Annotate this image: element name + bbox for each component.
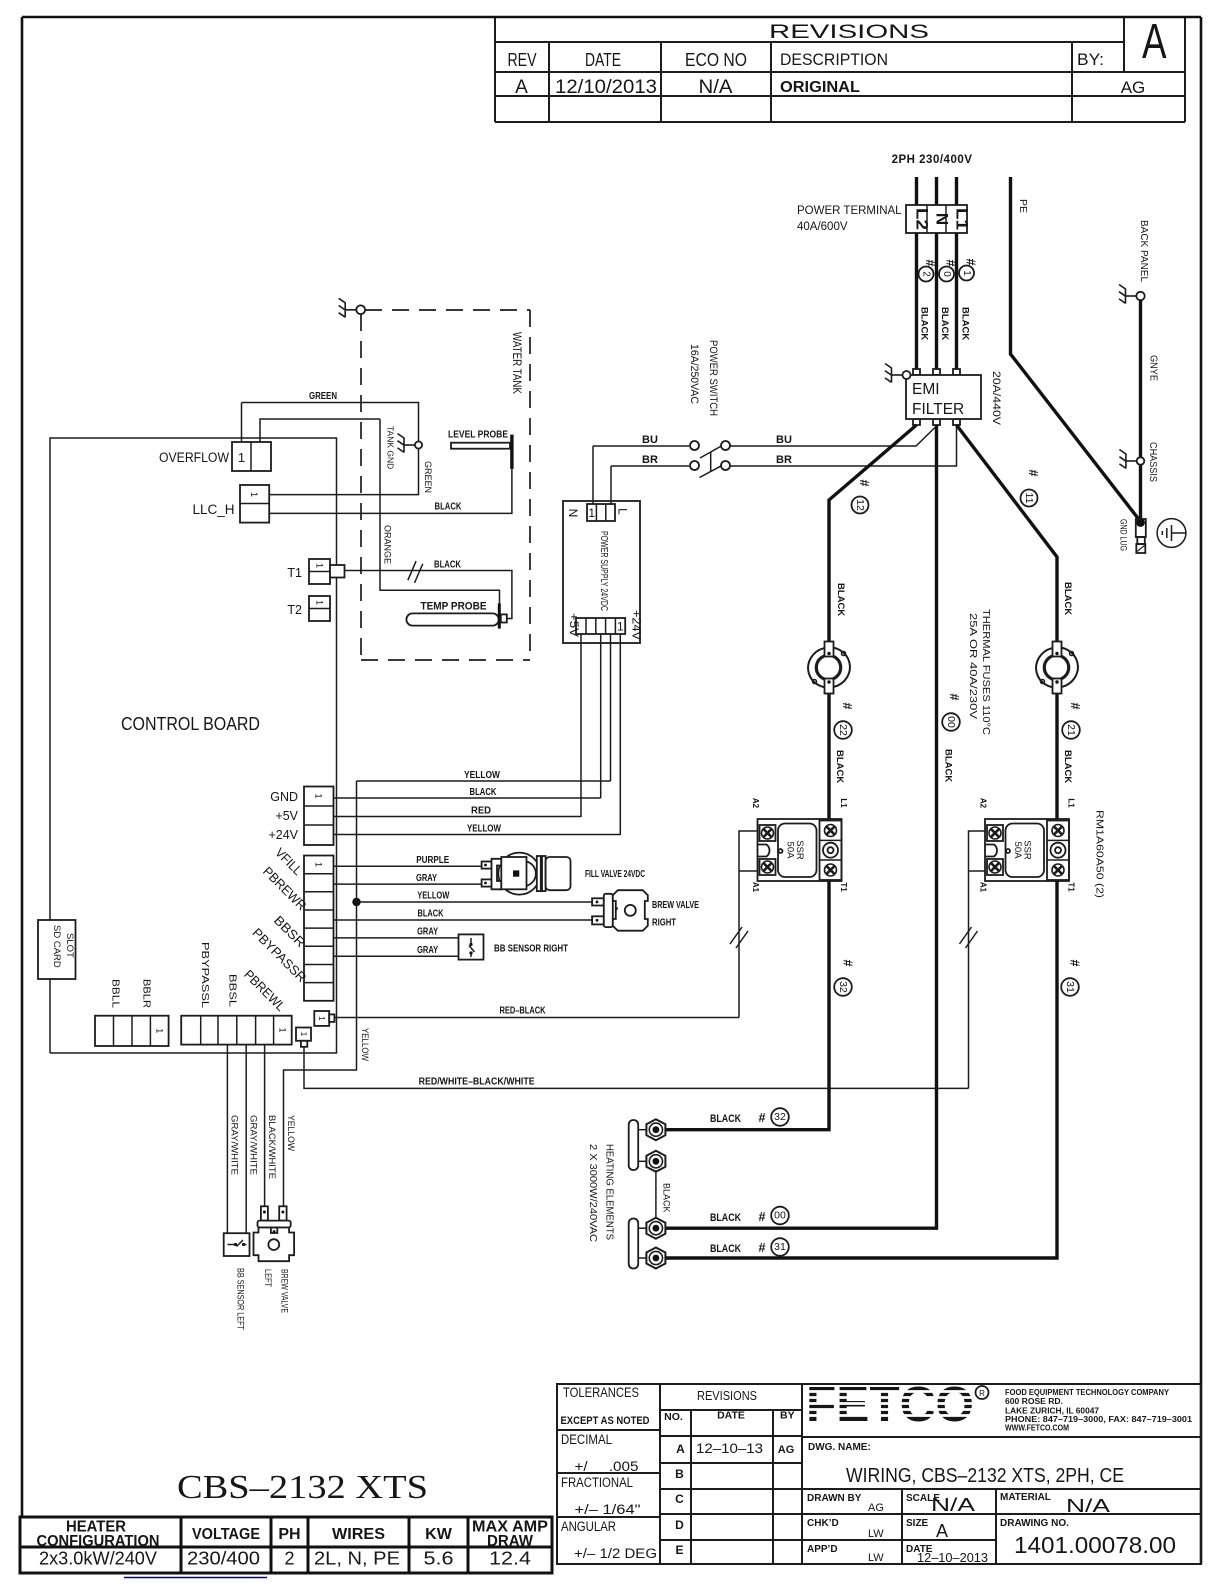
svg-text:16A/250VAC: 16A/250VAC bbox=[688, 344, 700, 404]
svg-text:FILTER: FILTER bbox=[912, 401, 964, 418]
svg-text:T2: T2 bbox=[287, 603, 302, 617]
svg-text:1: 1 bbox=[961, 270, 972, 276]
svg-text:32: 32 bbox=[837, 981, 849, 993]
svg-text:C: C bbox=[675, 1492, 684, 1506]
wire BLACK to level probe bbox=[269, 469, 512, 514]
svg-text:20A/440V: 20A/440V bbox=[990, 371, 1002, 426]
svg-text:GND: GND bbox=[270, 790, 298, 804]
svg-text:GREEN: GREEN bbox=[309, 391, 337, 402]
svg-text:BLACK: BLACK bbox=[435, 502, 463, 513]
title block bbox=[557, 1384, 1201, 1564]
svg-text:REVISIONS: REVISIONS bbox=[697, 1389, 757, 1403]
wire L2 black to EMI bbox=[915, 233, 918, 371]
svg-text:A2: A2 bbox=[751, 798, 760, 809]
svg-text:BY:: BY: bbox=[1077, 50, 1104, 69]
svg-text:HEATING ELEMENTS: HEATING ELEMENTS bbox=[604, 1144, 615, 1240]
svg-text:2PH 230/400V: 2PH 230/400V bbox=[892, 154, 973, 166]
brew valve right bbox=[592, 890, 648, 931]
svg-text:BU: BU bbox=[642, 434, 658, 446]
wire BLACK element link bbox=[655, 1170, 657, 1219]
wire RED +5V vertical bbox=[580, 634, 582, 817]
label #00 bbox=[942, 694, 961, 731]
svg-text:CHK’D: CHK’D bbox=[807, 1518, 839, 1529]
svg-text:L1: L1 bbox=[1067, 798, 1076, 808]
heater configuration table bbox=[20, 1517, 552, 1573]
wire BLACK #12 bbox=[829, 425, 917, 642]
svg-text:LEFT: LEFT bbox=[262, 1269, 273, 1287]
svg-text:CONTROL BOARD: CONTROL BOARD bbox=[121, 714, 260, 734]
svg-text:N/A: N/A bbox=[1066, 1496, 1110, 1516]
svg-text:32: 32 bbox=[774, 1111, 786, 1123]
wire number #1 bbox=[959, 259, 978, 281]
svg-text:YELLOW: YELLOW bbox=[286, 1115, 296, 1151]
svg-text:ANGULAR: ANGULAR bbox=[561, 1519, 616, 1534]
svg-text:WWW.FETCO.COM: WWW.FETCO.COM bbox=[1005, 1424, 1069, 1433]
svg-text:00: 00 bbox=[774, 1210, 786, 1222]
svg-text:GRAY/WHITE: GRAY/WHITE bbox=[248, 1115, 258, 1175]
svg-text:+24V: +24V bbox=[630, 610, 644, 640]
wire BLACK to temp probe bbox=[345, 571, 512, 619]
svg-text:EXCEPT AS NOTED: EXCEPT AS NOTED bbox=[561, 1415, 650, 1427]
svg-text:31: 31 bbox=[1064, 981, 1076, 993]
svg-text:1: 1 bbox=[299, 1032, 308, 1037]
svg-text:BLACK: BLACK bbox=[1062, 582, 1073, 615]
FETCO logo bbox=[806, 1378, 989, 1432]
wire RED/WHITE-BLACK/WHITE bbox=[304, 1047, 969, 1089]
svg-text:BLACK: BLACK bbox=[1062, 750, 1073, 783]
junction yellow bbox=[352, 898, 360, 906]
svg-text:+/– 1/2 DEG: +/– 1/2 DEG bbox=[574, 1546, 657, 1561]
wire GREEN bbox=[242, 403, 419, 442]
connector PBYPASSL/BBSL/PBREWL bbox=[181, 1016, 292, 1045]
wire SSR right control bbox=[969, 831, 986, 1088]
svg-text:GRAY: GRAY bbox=[417, 927, 438, 938]
svg-text:VOLTAGE: VOLTAGE bbox=[192, 1526, 260, 1543]
svg-text:RED–BLACK: RED–BLACK bbox=[500, 1006, 547, 1017]
wire GRAY/WHITE 1 bbox=[226, 1045, 228, 1234]
svg-text:BLACK: BLACK bbox=[710, 1113, 741, 1125]
svg-text:POWER SWITCH: POWER SWITCH bbox=[707, 340, 719, 416]
svg-text:DWG. NAME:: DWG. NAME: bbox=[808, 1442, 871, 1453]
svg-text:A2: A2 bbox=[979, 798, 988, 809]
wire number #2 bbox=[919, 260, 938, 282]
connector T2 bbox=[309, 596, 330, 621]
wire YELLOW horizontal bbox=[357, 780, 611, 782]
svg-text:BLACK: BLACK bbox=[418, 909, 445, 920]
svg-text:ECO NO: ECO NO bbox=[685, 50, 747, 70]
wire GRAY bbox=[334, 883, 482, 885]
connector RW-BW 1pin bbox=[296, 1028, 311, 1047]
svg-text:GREEN: GREEN bbox=[423, 461, 433, 493]
svg-text:PURPLE: PURPLE bbox=[416, 855, 449, 866]
BB sensor left bbox=[224, 1233, 250, 1256]
wire SSR left control bbox=[739, 831, 758, 1018]
heating element R1 bbox=[629, 1119, 666, 1172]
wire RED-BLACK bbox=[334, 1017, 739, 1019]
svg-text:RIGHT: RIGHT bbox=[652, 917, 676, 929]
svg-text:1: 1 bbox=[238, 450, 245, 465]
svg-text:2L, N, PE: 2L, N, PE bbox=[314, 1549, 400, 1569]
fill valve 24VDC bbox=[482, 853, 571, 895]
svg-text:L1: L1 bbox=[953, 208, 972, 230]
svg-text:BACK PANEL: BACK PANEL bbox=[1138, 220, 1149, 282]
label #21 bbox=[1062, 703, 1082, 739]
wire L2 drop to terminal bbox=[915, 177, 918, 206]
svg-text:TOLERANCES: TOLERANCES bbox=[563, 1384, 639, 1400]
svg-text:L1: L1 bbox=[839, 798, 848, 808]
svg-text:BLACK: BLACK bbox=[835, 583, 846, 616]
svg-text:2: 2 bbox=[921, 271, 932, 277]
svg-text:1: 1 bbox=[315, 600, 325, 605]
svg-text:THERMAL FUSES 110°C: THERMAL FUSES 110°C bbox=[980, 609, 992, 735]
svg-text:DRAWN BY: DRAWN BY bbox=[807, 1493, 862, 1504]
svg-text:25A OR 40A/230V: 25A OR 40A/230V bbox=[967, 613, 979, 719]
svg-text:#: # bbox=[1068, 960, 1082, 967]
svg-text:00: 00 bbox=[945, 716, 957, 728]
wire ORANGE bbox=[380, 419, 500, 603]
svg-text:L: L bbox=[616, 508, 630, 515]
wire GNYE bbox=[1139, 300, 1142, 519]
svg-text:BREW VALVE: BREW VALVE bbox=[279, 1269, 290, 1313]
svg-text:BR: BR bbox=[642, 454, 658, 466]
svg-text:LLC_H: LLC_H bbox=[192, 502, 234, 517]
svg-text:YELLOW: YELLOW bbox=[417, 891, 449, 902]
wire PURPLE bbox=[334, 865, 482, 867]
wire green overflow pin1 bbox=[241, 403, 243, 443]
svg-text:BU: BU bbox=[776, 434, 792, 446]
svg-text:1: 1 bbox=[314, 862, 324, 867]
svg-text:BLACK: BLACK bbox=[943, 749, 954, 782]
svg-text:AG: AG bbox=[1121, 78, 1146, 97]
SSR K2 (right) 50A bbox=[979, 798, 1076, 893]
svg-text:TANK GND: TANK GND bbox=[386, 426, 396, 469]
svg-text:LEVEL PROBE: LEVEL PROBE bbox=[448, 429, 508, 441]
FETCO address bbox=[1005, 1388, 1193, 1433]
svg-text:+24V: +24V bbox=[268, 828, 298, 842]
svg-text:1: 1 bbox=[278, 1027, 288, 1032]
connector T1 bbox=[309, 559, 345, 584]
svg-text:600 ROSE RD.: 600 ROSE RD. bbox=[1005, 1397, 1063, 1406]
svg-text:R: R bbox=[979, 1389, 985, 1398]
svg-text:CHASSIS: CHASSIS bbox=[1147, 442, 1158, 482]
svg-text:YELLOW: YELLOW bbox=[360, 1028, 370, 1061]
svg-text:5.6: 5.6 bbox=[424, 1549, 454, 1569]
svg-text:2x3.0kW/240V: 2x3.0kW/240V bbox=[39, 1549, 157, 1569]
control board outline bbox=[50, 438, 337, 1053]
svg-text:NO.: NO. bbox=[664, 1411, 683, 1423]
svg-text:#: # bbox=[1026, 470, 1040, 477]
wire YELLOW to brew valve right bbox=[357, 901, 593, 903]
svg-text:1401.00078.00: 1401.00078.00 bbox=[1014, 1532, 1176, 1558]
svg-text:12.4: 12.4 bbox=[489, 1549, 531, 1569]
power supply PS1 24VDC bbox=[563, 501, 644, 643]
svg-text:ORIGINAL: ORIGINAL bbox=[780, 79, 860, 96]
svg-text:BLACK: BLACK bbox=[470, 787, 498, 798]
svg-text:12–10–2013: 12–10–2013 bbox=[917, 1550, 988, 1565]
svg-text:BLACK: BLACK bbox=[834, 750, 845, 783]
svg-text:BBLL: BBLL bbox=[109, 979, 120, 1009]
svg-text:REV: REV bbox=[508, 50, 537, 70]
thermal fuse F1 bbox=[804, 642, 855, 694]
wire GRAY to bb sensor right 2 bbox=[334, 955, 459, 957]
svg-text:POWER SUPPLY 24VDC: POWER SUPPLY 24VDC bbox=[598, 531, 609, 611]
svg-text:B: B bbox=[675, 1467, 684, 1481]
wire BLACK #11 bbox=[957, 425, 1058, 642]
svg-text:A: A bbox=[515, 77, 528, 98]
svg-text:BLACK: BLACK bbox=[939, 307, 950, 340]
label #12 bbox=[852, 480, 872, 514]
svg-text:A1: A1 bbox=[979, 882, 988, 893]
svg-text:A: A bbox=[1142, 15, 1167, 69]
svg-text:BB SENSOR RIGHT: BB SENSOR RIGHT bbox=[494, 943, 568, 955]
svg-text:CONFIGURATION: CONFIGURATION bbox=[37, 1533, 160, 1550]
wire BLACK/WHITE bbox=[264, 1045, 266, 1207]
ground at back panel bbox=[1119, 285, 1145, 304]
wire BLACK GND vertical bbox=[600, 634, 602, 798]
svg-text:SLOT: SLOT bbox=[64, 933, 75, 958]
svg-text:APP’D: APP’D bbox=[807, 1544, 838, 1555]
BB sensor right bbox=[459, 934, 484, 959]
hyperlink underline artifact bbox=[124, 1577, 267, 1579]
crossover bbox=[404, 560, 426, 584]
svg-text:AG: AG bbox=[778, 1444, 795, 1456]
connector GND/+5V/+24V bbox=[304, 787, 334, 846]
svg-text:11: 11 bbox=[1023, 493, 1035, 504]
svg-text:#: # bbox=[947, 694, 961, 701]
svg-text:#: # bbox=[944, 260, 958, 267]
svg-text:POWER TERMINAL: POWER TERMINAL bbox=[797, 205, 902, 217]
svg-text:+5V: +5V bbox=[567, 613, 581, 637]
svg-text:REVISIONS: REVISIONS bbox=[769, 22, 929, 43]
wire BU right bbox=[730, 426, 937, 446]
svg-text:#: # bbox=[964, 259, 978, 266]
wire N drop to terminal bbox=[935, 177, 938, 206]
svg-text:DESCRIPTION: DESCRIPTION bbox=[780, 50, 888, 69]
svg-text:MATERIAL: MATERIAL bbox=[1000, 1492, 1051, 1503]
svg-text:1: 1 bbox=[155, 1028, 165, 1033]
svg-text:T1: T1 bbox=[839, 882, 848, 892]
wire RED to +5V bbox=[334, 816, 582, 818]
wire SSR left T1 down bbox=[665, 881, 830, 1130]
wire BR to power supply L bbox=[610, 466, 612, 504]
svg-text:50A: 50A bbox=[785, 842, 796, 860]
thermal fuse F2 bbox=[1032, 642, 1083, 694]
SSR K1 (left) 50A bbox=[751, 798, 848, 893]
svg-text:BR: BR bbox=[776, 454, 792, 466]
wire YELLOW to +24V bbox=[334, 834, 621, 836]
svg-text:CBS–2132 XTS: CBS–2132 XTS bbox=[177, 1469, 428, 1506]
svg-text:FRACTIONAL: FRACTIONAL bbox=[561, 1475, 633, 1490]
svg-text:12/10/2013: 12/10/2013 bbox=[555, 76, 657, 98]
wire BU left bbox=[593, 445, 689, 447]
svg-text:LW: LW bbox=[868, 1528, 884, 1540]
wire BLACK #00 bbox=[665, 425, 937, 1228]
svg-text:FETCO: FETCO bbox=[806, 1378, 974, 1432]
svg-text:1: 1 bbox=[249, 492, 259, 497]
temp probe bbox=[406, 603, 506, 628]
power switch S1 bbox=[690, 441, 730, 478]
svg-text:PE: PE bbox=[1017, 199, 1029, 213]
svg-text:40A/600V: 40A/600V bbox=[797, 221, 848, 233]
level probe bbox=[451, 435, 512, 469]
svg-text:BB SENSOR LEFT: BB SENSOR LEFT bbox=[235, 1268, 246, 1330]
label #32 (vertical) bbox=[834, 960, 854, 996]
brew valve left bbox=[254, 1206, 295, 1261]
svg-text:BLACK: BLACK bbox=[960, 307, 971, 340]
wire GREEN to LLC_H bbox=[270, 449, 419, 495]
svg-text:BLACK: BLACK bbox=[662, 1183, 672, 1213]
svg-text:GRAY: GRAY bbox=[416, 873, 437, 884]
svg-text:GRAY: GRAY bbox=[417, 945, 438, 956]
wire L1 black to EMI bbox=[955, 233, 958, 371]
svg-text:LW: LW bbox=[868, 1552, 884, 1564]
svg-text:GND LUG: GND LUG bbox=[1118, 519, 1129, 551]
svg-text:21: 21 bbox=[1065, 724, 1077, 736]
svg-text:+/– 1/64": +/– 1/64" bbox=[575, 1502, 641, 1517]
svg-text:DRAW: DRAW bbox=[487, 1533, 534, 1550]
connector OVERFLOW bbox=[232, 442, 271, 471]
wire SSR right T1 down bbox=[665, 881, 1058, 1258]
svg-text:RM1A60A50 (2): RM1A60A50 (2) bbox=[1094, 810, 1106, 898]
svg-text:BLACK: BLACK bbox=[710, 1212, 741, 1224]
wire GRAY to bb sensor right bbox=[334, 937, 459, 939]
svg-text:#: # bbox=[840, 703, 854, 710]
wire YELLOW +24V vertical bbox=[619, 634, 621, 835]
ground at EMI filter bbox=[885, 364, 911, 383]
connector LLC_H bbox=[240, 485, 269, 523]
svg-text:BBLR: BBLR bbox=[141, 979, 152, 1008]
svg-text:GNYE: GNYE bbox=[1148, 355, 1159, 381]
svg-text:GRAY/WHITE: GRAY/WHITE bbox=[230, 1115, 240, 1175]
svg-text:D: D bbox=[675, 1518, 684, 1532]
wire YELLOW vertical bbox=[284, 781, 357, 1206]
svg-text:RED: RED bbox=[471, 806, 491, 817]
label #22 bbox=[834, 703, 854, 739]
svg-text:WIRING, CBS–2132 XTS, 2PH,: WIRING, CBS–2132 XTS, 2PH, CE bbox=[846, 1465, 1124, 1487]
svg-text:#: # bbox=[841, 960, 855, 967]
svg-text:BREW VALVE: BREW VALVE bbox=[652, 899, 699, 911]
svg-text:22: 22 bbox=[837, 724, 849, 736]
label #11 bbox=[1021, 470, 1041, 507]
svg-text:2: 2 bbox=[284, 1549, 294, 1569]
svg-text:T1: T1 bbox=[1067, 882, 1076, 892]
wire BR left bbox=[611, 465, 689, 467]
svg-text:BLACK: BLACK bbox=[434, 560, 462, 571]
wire number #0 bbox=[939, 260, 958, 282]
svg-text:PBYPASSL: PBYPASSL bbox=[199, 942, 210, 1009]
svg-text:A: A bbox=[936, 1521, 948, 1541]
crossover bbox=[730, 927, 748, 948]
svg-text:ORANGE: ORANGE bbox=[383, 525, 393, 564]
wire GRAY/WHITE 2 bbox=[245, 1045, 247, 1234]
wire BLACK to GND bbox=[334, 797, 601, 799]
GND LUG bbox=[1136, 518, 1146, 553]
svg-text:2 X 3000W/240VAC: 2 X 3000W/240VAC bbox=[587, 1144, 598, 1242]
wire BLACK to brew valve right bbox=[334, 919, 593, 921]
svg-text:50A: 50A bbox=[1012, 842, 1023, 860]
svg-text:N/A: N/A bbox=[699, 77, 733, 98]
svg-text:#: # bbox=[759, 1111, 766, 1125]
svg-text:A1: A1 bbox=[751, 882, 760, 893]
svg-text:DRAWING NO.: DRAWING NO. bbox=[1000, 1518, 1069, 1529]
svg-text:#: # bbox=[1068, 703, 1082, 710]
wire N black to EMI bbox=[935, 233, 938, 371]
power terminal TB1 40A/600V bbox=[906, 205, 972, 233]
ground at water tank bbox=[339, 298, 365, 317]
svg-text:SD CARD: SD CARD bbox=[51, 925, 62, 968]
heating element R2 bbox=[629, 1218, 666, 1269]
wire L1 drop to terminal bbox=[955, 177, 958, 206]
wire YELLOW vertical bbox=[610, 634, 612, 781]
svg-text:31: 31 bbox=[774, 1241, 786, 1253]
svg-text:DATE: DATE bbox=[585, 50, 621, 70]
svg-text:SIZE: SIZE bbox=[906, 1518, 929, 1529]
svg-text:12–10–13: 12–10–13 bbox=[696, 1440, 763, 1456]
SD card slot bbox=[38, 920, 76, 979]
svg-text:1: 1 bbox=[617, 620, 624, 634]
revisions table bbox=[495, 17, 1185, 122]
svg-text:RED/WHITE–BLACK/WHITE: RED/WHITE–BLACK/WHITE bbox=[419, 1077, 535, 1088]
svg-text:BLACK: BLACK bbox=[919, 307, 930, 340]
svg-text:TEMP PROBE: TEMP PROBE bbox=[421, 601, 487, 613]
svg-text:1: 1 bbox=[317, 1016, 326, 1021]
connector BBLL/BBLR bbox=[95, 1016, 169, 1046]
svg-text:#: # bbox=[857, 480, 871, 487]
svg-text:1: 1 bbox=[315, 563, 325, 568]
svg-text:T1: T1 bbox=[287, 566, 302, 580]
crossover bbox=[960, 927, 978, 948]
svg-text:AG: AG bbox=[868, 1502, 884, 1514]
svg-text:WATER TANK: WATER TANK bbox=[510, 332, 522, 394]
svg-text:KW: KW bbox=[425, 1526, 453, 1543]
svg-text:E: E bbox=[675, 1543, 683, 1557]
svg-text:N/A: N/A bbox=[931, 1495, 975, 1515]
svg-text:N: N bbox=[566, 509, 580, 518]
svg-text:EMI: EMI bbox=[912, 381, 940, 398]
svg-text:L2: L2 bbox=[913, 208, 932, 230]
ground at chassis bbox=[1119, 450, 1144, 469]
wire BR right bbox=[730, 426, 957, 466]
svg-text:DATE: DATE bbox=[717, 1410, 745, 1422]
svg-text:BY: BY bbox=[780, 1410, 795, 1422]
svg-text:12: 12 bbox=[854, 499, 866, 511]
svg-text:YELLOW: YELLOW bbox=[464, 770, 500, 781]
svg-text:BLACK/WHITE: BLACK/WHITE bbox=[267, 1115, 277, 1179]
label #31 (vertical) bbox=[1061, 960, 1081, 996]
EMI filter FL1 bbox=[906, 369, 981, 425]
svg-text:PH: PH bbox=[278, 1526, 300, 1543]
svg-text:N: N bbox=[933, 213, 952, 225]
svg-text:1: 1 bbox=[314, 793, 324, 798]
connector RED-BLACK 1pin bbox=[314, 1011, 334, 1026]
connector VFILL/PBREWR/BBSR/PBYPASSR bbox=[304, 856, 334, 1001]
svg-text:YELLOW: YELLOW bbox=[467, 824, 501, 835]
svg-text:OVERFLOW: OVERFLOW bbox=[159, 450, 229, 465]
svg-text:WIRES: WIRES bbox=[332, 1526, 385, 1543]
svg-text:BBSL: BBSL bbox=[227, 974, 238, 1008]
svg-text:FOOD EQUIPMENT TECHNOLOGY C: FOOD EQUIPMENT TECHNOLOGY COMPANY bbox=[1005, 1388, 1170, 1397]
svg-text:FILL VALVE 24VDC: FILL VALVE 24VDC bbox=[585, 869, 645, 880]
svg-text:DECIMAL: DECIMAL bbox=[561, 1432, 612, 1447]
ground TANK GND bbox=[398, 434, 423, 453]
svg-text:1: 1 bbox=[588, 506, 595, 520]
svg-text:#: # bbox=[759, 1241, 766, 1255]
wire BU to power supply N bbox=[592, 446, 594, 504]
svg-text:#: # bbox=[923, 260, 937, 267]
svg-text:#: # bbox=[759, 1210, 766, 1224]
protective earth symbol bbox=[1157, 519, 1186, 548]
svg-text:A: A bbox=[676, 1442, 685, 1456]
